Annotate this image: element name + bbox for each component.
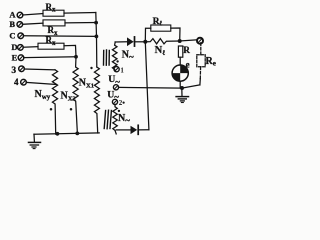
svg-text:N~: N~: [122, 50, 134, 63]
svg-text:NX1: NX1: [79, 77, 94, 89]
node D/E junction: [74, 55, 78, 59]
winding Nx1: [94, 67, 99, 133]
svg-text:3: 3: [11, 66, 16, 76]
ground left: [33, 134, 35, 141]
center tap terminal circle: [113, 85, 118, 90]
dashed lead from output terminal: [200, 43, 202, 55]
svg-text:E: E: [12, 52, 18, 62]
transformer core bottom: [104, 111, 105, 129]
resistor Rf: [151, 25, 171, 31]
svg-text:C: C: [9, 31, 15, 41]
winding Nwy: [52, 70, 57, 134]
svg-text:D: D: [11, 42, 17, 52]
winding Nx2 polarity dot: [70, 108, 73, 111]
node C-bus junction: [95, 35, 99, 39]
winding N~ bottom: [113, 105, 118, 134]
ground right: [181, 88, 183, 96]
svg-text:e: e: [186, 59, 190, 69]
terminal E circle: [18, 55, 24, 61]
terminal C circle: [18, 33, 24, 39]
output terminal circle: [197, 38, 203, 44]
wire A to bus: [64, 12, 96, 15]
svg-text:2: 2: [119, 99, 123, 107]
winding N~ top polarity dot: [116, 60, 118, 62]
resistor R: [178, 46, 182, 57]
bottom bus: [34, 133, 99, 134]
wire to output terminal: [180, 40, 198, 41]
node Nx2-bus junction: [75, 132, 79, 136]
winding Nx2: [73, 57, 78, 132]
svg-text:Rℓ: Rℓ: [153, 17, 163, 28]
resistor Rx1: [43, 10, 64, 16]
wire C row: [24, 35, 97, 38]
svg-text:Rx: Rx: [46, 2, 57, 14]
svg-text:R: R: [183, 45, 190, 55]
resistor Rx3: [38, 43, 64, 49]
wire B to bus: [65, 22, 96, 24]
wire D to corner and down to node E: [64, 45, 76, 56]
terminal D circle: [18, 45, 24, 51]
corner Re to bus: [199, 79, 201, 85]
wire 3 row to winding Nwy top: [24, 68, 55, 71]
wire D2 to bus corner: [138, 129, 149, 131]
svg-text:Re: Re: [206, 56, 216, 67]
meter e: [172, 65, 188, 81]
diode D2: [131, 126, 138, 134]
dashed lead from Re box down: [199, 67, 201, 79]
transformer core top: [103, 51, 105, 66]
Rf right lead: [171, 28, 180, 41]
svg-text:4: 4: [14, 77, 19, 87]
resistor Rx2: [43, 20, 65, 26]
filter loop: Rf branch: [145, 28, 151, 42]
wire B row: [23, 23, 43, 24]
center tap wire to right: [119, 85, 200, 88]
terminal B circle: [17, 22, 23, 28]
inductor Nf inline zigzag: [145, 39, 179, 44]
wire D row: [23, 46, 38, 49]
winding N~ bottom polarity dot: [118, 110, 120, 112]
terminal 4 circle: [21, 79, 27, 85]
terminal 3 circle: [19, 66, 25, 72]
svg-text:Rx: Rx: [46, 35, 57, 47]
node meter/ground junction: [180, 86, 184, 90]
winding N~ top: [112, 42, 117, 71]
diode D1: [127, 37, 134, 46]
node Rf/Nf right: [178, 39, 182, 43]
wire A row: [23, 14, 43, 15]
wire R to meter: [179, 57, 181, 65]
svg-text:Nwy: Nwy: [35, 89, 51, 101]
terminal 1 circle: [114, 67, 119, 72]
node Nwy-bus junction: [56, 132, 60, 136]
svg-text:B: B: [9, 19, 15, 29]
wire E row: [24, 56, 76, 59]
node rectifier top: [143, 40, 147, 44]
terminal A circle: [17, 12, 23, 18]
svg-text:N~: N~: [118, 113, 130, 126]
wire D1 to node: [135, 41, 146, 43]
bottom rail to diode D2: [116, 129, 130, 131]
terminal 2 circle: [112, 99, 117, 104]
wire meter to bus: [179, 81, 181, 88]
svg-text:1: 1: [120, 66, 124, 74]
winding Nx1 polarity dot: [90, 67, 92, 69]
wire 4 row to winding Nwy tap: [26, 82, 56, 84]
diode D1 wire from winding: [115, 41, 127, 43]
bus A/B/C vertical: [96, 13, 97, 68]
rectifier output bus vertical: [145, 42, 149, 130]
terminal 2 polarity dot: [123, 102, 125, 104]
resistor Re dashed box: [197, 55, 205, 67]
node B-bus junction: [94, 21, 98, 25]
svg-text:Nℓ: Nℓ: [155, 45, 166, 57]
winding Nwy polarity dot: [50, 108, 53, 111]
